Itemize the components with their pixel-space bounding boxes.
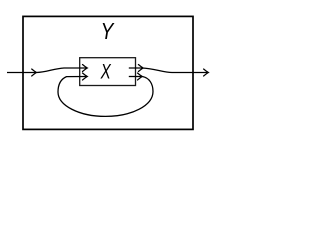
arrowhead: X bottom output port: [138, 73, 143, 80]
outer system box Y: [23, 16, 193, 129]
arrowhead: X bottom input port: [83, 73, 88, 80]
arrowhead: input crossing outer boundary: [32, 69, 37, 76]
arrowhead: X top input port: [83, 65, 88, 72]
svg-text:X: X: [100, 59, 112, 83]
wire: external input segment: [7, 72, 36, 74]
svg-text:Y: Y: [101, 20, 115, 45]
inner block X: [80, 58, 136, 86]
wire: X top output to external output: [129, 68, 207, 73]
wire: input to X top port: [37, 68, 87, 73]
arrowhead: external output: [204, 69, 209, 76]
wire: X bottom output into feedback loop: [129, 76, 142, 78]
arrowhead: X top output port: [138, 65, 143, 72]
wire: feedback loop under X: [58, 77, 153, 117]
